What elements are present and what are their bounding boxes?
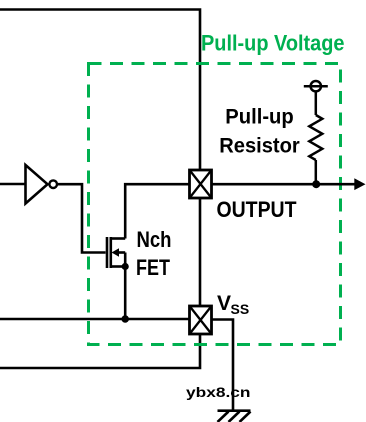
- arrowhead: OUTPUT direction: [354, 178, 365, 190]
- svg-text:OUTPUT: OUTPUT: [217, 197, 297, 222]
- transistor Q1: bulk-source tie: [124, 253, 127, 267]
- wire: inverter output to FET gate: [58, 184, 106, 252]
- pad: OUTPUT bonding pad (crossed box): [190, 170, 212, 198]
- ground symbol: [218, 411, 251, 422]
- green dashed box (pull-up voltage domain): [89, 64, 341, 345]
- chip outline (IC boundary, partial rectangle): [0, 10, 200, 369]
- resistor R1 zigzag: [309, 115, 322, 160]
- inverter U1 (triangle): [26, 165, 48, 204]
- svg-text:Pull-up: Pull-up: [225, 106, 294, 129]
- wire: source down to VSS rail: [124, 267, 127, 320]
- junction dot: source to VSS rail: [121, 315, 129, 323]
- svg-text:Pull-up Voltage: Pull-up Voltage: [201, 31, 345, 56]
- wire: input to inverter: [0, 183, 25, 186]
- svg-text:SS: SS: [231, 301, 250, 317]
- svg-text:ybx8.cn: ybx8.cn: [186, 384, 251, 400]
- svg-text:V: V: [217, 292, 231, 315]
- transistor Q1: bulk arrow (points to channel): [112, 248, 126, 256]
- transistor Q1 Nch FET: channel bar: [110, 237, 113, 268]
- transistor Q1: drain stub: [111, 237, 125, 240]
- transistor Q1: source stub: [111, 265, 125, 268]
- svg-text:Nch: Nch: [137, 227, 172, 252]
- wire: OUTPUT line with arrow: [212, 183, 356, 186]
- wire: drain to OUTPUT pad: [125, 184, 189, 238]
- svg-text:Resistor: Resistor: [219, 135, 300, 158]
- wire: VSS pad to ground: [212, 320, 234, 410]
- transistor Q1 Nch FET: gate bar: [106, 237, 109, 268]
- terminal: pull-up voltage terminal (circle with bar): [304, 81, 328, 91]
- wire: VSS rail: [0, 318, 189, 321]
- wire: terminal to resistor: [315, 91, 318, 115]
- inverter U1 output bubble: [49, 180, 57, 188]
- junction dot: resistor to output line: [312, 180, 320, 188]
- junction dot: source/bulk tie: [122, 263, 129, 270]
- label: Pull-up Resistor: [219, 106, 300, 158]
- resistor R1 pull-up resistor: [309, 91, 322, 184]
- svg-text:FET: FET: [136, 255, 170, 280]
- pad: VSS bonding pad (crossed box): [190, 306, 212, 334]
- wire: resistor to output line: [315, 160, 318, 184]
- label: Vss: [217, 292, 249, 317]
- label: Nch FET: [136, 227, 172, 280]
